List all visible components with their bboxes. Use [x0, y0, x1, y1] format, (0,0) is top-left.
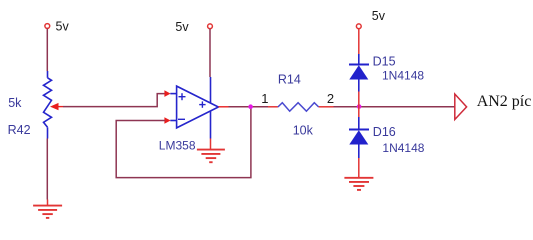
svg-text:5k: 5k — [8, 96, 22, 110]
svg-text:5v: 5v — [56, 20, 70, 34]
wire 5v to pot — [46, 29, 48, 71]
pin arrow -in — [164, 117, 176, 124]
svg-text:1: 1 — [261, 91, 268, 106]
wire wiper to op-amp +in — [63, 94, 165, 107]
resistor R14 — [268, 103, 334, 112]
power terminal 5v (op-amp) — [175, 20, 212, 34]
wire 5v to op-amp V+ — [209, 29, 211, 77]
wire D15 to node 2 — [358, 92, 360, 107]
wire 5v to D15 — [358, 29, 360, 54]
op-amp U1 LM358 — [177, 77, 219, 139]
svg-text:1N4148: 1N4148 — [382, 68, 424, 82]
wiper arrow — [50, 103, 59, 110]
wire V- to ground — [210, 139, 212, 150]
pin arrow +in — [164, 90, 176, 97]
power terminal 5v (diodes) — [356, 9, 385, 29]
wire node 2 to D16 — [358, 107, 360, 118]
potentiometer R42 — [44, 71, 64, 139]
ground (pot) — [33, 206, 62, 218]
V+ pin — [210, 77, 212, 103]
junction node 2 — [357, 104, 362, 109]
svg-text:LM358: LM358 — [159, 139, 196, 153]
svg-text:1N4148: 1N4148 — [382, 141, 424, 155]
diode D16 — [349, 117, 369, 158]
svg-text:5v: 5v — [372, 9, 386, 23]
svg-text:R14: R14 — [278, 73, 301, 87]
junction node 1 — [248, 104, 253, 109]
V- pin — [210, 111, 212, 139]
svg-text:D15: D15 — [373, 54, 396, 68]
svg-text:AN2 píc: AN2 píc — [477, 93, 532, 110]
ground (D16) — [344, 178, 373, 190]
power terminal 5v (pot) — [45, 20, 70, 34]
svg-text:2: 2 — [327, 91, 334, 106]
svg-text:5v: 5v — [175, 20, 189, 34]
svg-text:10k: 10k — [293, 123, 314, 137]
port AN2 pic triangle — [455, 94, 467, 120]
svg-text:D16: D16 — [373, 125, 396, 139]
wire node1 area to port — [334, 106, 455, 108]
output pin — [218, 106, 228, 108]
wire D16 to ground — [358, 158, 360, 178]
ground (op-amp) — [197, 150, 225, 163]
diode D15 — [349, 54, 369, 92]
wire pot to ground — [46, 139, 48, 200]
wire output to node 1 — [229, 106, 269, 108]
feedback wire — [116, 107, 251, 178]
svg-text:R42: R42 — [8, 123, 31, 137]
